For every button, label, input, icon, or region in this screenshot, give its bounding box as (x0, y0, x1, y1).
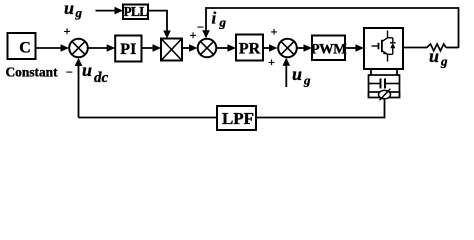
svg-text:Constant: Constant (6, 65, 59, 80)
svg-text:u: u (292, 64, 302, 84)
svg-text:u: u (429, 46, 439, 66)
svg-text:PI: PI (120, 41, 136, 58)
svg-text:−: − (66, 65, 73, 79)
svg-text:g: g (75, 5, 83, 20)
svg-text:g: g (303, 73, 311, 88)
svg-text:i: i (212, 9, 217, 28)
svg-text:PLL: PLL (124, 4, 149, 19)
svg-text:PR: PR (239, 41, 261, 58)
svg-text:+: + (268, 55, 275, 69)
svg-text:−: − (197, 20, 204, 34)
svg-text:dc: dc (94, 70, 109, 86)
svg-text:u: u (82, 60, 92, 80)
svg-text:+: + (64, 24, 71, 38)
svg-text:+: + (190, 28, 197, 42)
svg-text:LPF: LPF (222, 109, 254, 128)
svg-text:PWM: PWM (311, 42, 347, 58)
svg-text:+: + (271, 25, 278, 39)
svg-text:g: g (440, 54, 448, 69)
svg-text:g: g (219, 15, 227, 30)
svg-text:C: C (19, 40, 31, 57)
svg-text:u: u (64, 0, 74, 18)
